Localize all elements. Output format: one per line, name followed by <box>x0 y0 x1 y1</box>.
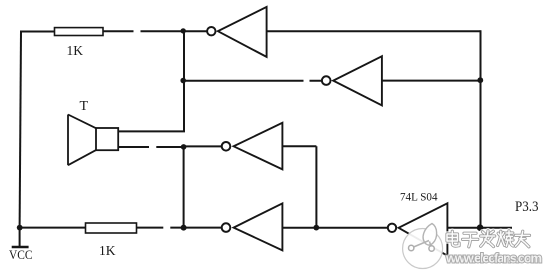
wire: U5 input to P3.3 open end <box>447 227 512 229</box>
node VCC junction dot <box>17 225 23 231</box>
watermark logo circle (elecfans) <box>403 224 443 269</box>
svg-text:T: T <box>80 99 89 114</box>
wire: node A to U1 output bubble <box>183 30 207 32</box>
svg-text:P3.3: P3.3 <box>515 199 539 215</box>
node B junction dot (U2 output on bus) <box>180 78 186 84</box>
node: junction dot right rail on P3.3 net <box>477 224 484 231</box>
svg-text:74L S04: 74L S04 <box>400 190 438 204</box>
wire: left vertical rail from top rail down to VCC node <box>20 32 21 228</box>
wire: lower bus vertical from node C to node D <box>183 147 185 228</box>
svg-text:1K: 1K <box>99 243 116 258</box>
wire: R2 to node D (with small print gap) <box>137 227 184 229</box>
wire: U1 input to top-right corner <box>267 30 481 32</box>
op-amp U5 inverter triangle (74LS04 gate 5, pointing left) <box>399 203 448 255</box>
op-amp U5 inverter output bubble <box>388 224 396 232</box>
wire: bottom rail from VCC node to resistor R2 <box>20 227 86 229</box>
op-amp U4 inverter output bubble <box>222 223 231 232</box>
op-amp U1 inverter output bubble <box>207 27 215 35</box>
wire: U3 input right then down to bottom net <box>282 146 316 227</box>
wire: speaker top terminal to bus corner <box>118 130 185 132</box>
wire: top rail left segment to resistor R1 <box>20 31 55 33</box>
wire: speaker bottom terminal to node C (with small print gap) <box>118 146 183 148</box>
wire: node D to U4 output bubble <box>184 227 222 229</box>
op-amp U4 inverter triangle (74LS04 gate 4, pointing left) <box>234 203 283 250</box>
power symbol VCC (stub and bar) <box>19 228 21 246</box>
op-amp U1 inverter triangle (74LS04 gate 1, pointing left) <box>218 7 267 57</box>
node A junction dot (top of bus) <box>181 28 186 33</box>
node C junction dot (U3 output / speaker) <box>181 144 187 150</box>
wire: node C to U3 output bubble <box>184 145 222 147</box>
node: junction dot U3 input on bottom net <box>313 225 319 231</box>
op-amp U3 inverter triangle (74LS04 gate 3, pointing left) <box>234 123 283 170</box>
wire: top rail from R1 to node A (with small print gap) <box>103 30 183 32</box>
svg-text:www.elecfans.com: www.elecfans.com <box>445 251 542 266</box>
resistor R1 body <box>55 28 104 36</box>
node: junction dot U2 input on right rail <box>477 77 483 83</box>
resistor R2 body <box>86 223 137 233</box>
wire: node B to U2 output bubble (with small print gap) <box>183 80 322 82</box>
svg-text:VCC: VCC <box>9 247 33 262</box>
wire: right vertical rail down to P3.3 net <box>480 30 482 228</box>
op-amp U2 inverter output bubble <box>322 76 331 85</box>
speaker T (transducer) <box>68 115 118 166</box>
wire: bus node A vertical segment down to speaker top terminal corner <box>183 31 185 131</box>
wire: U2 input to right vertical rail <box>382 80 481 82</box>
node D junction dot (bottom of bus) <box>181 225 187 231</box>
op-amp U2 inverter triangle (74LS04 gate 2, pointing left) <box>333 56 382 105</box>
wire: U4 input across to U5 output bubble <box>282 227 387 229</box>
watermark text 电子发烧友 (approximated strokes) <box>447 231 530 247</box>
svg-text:1K: 1K <box>67 43 84 58</box>
op-amp U3 inverter output bubble <box>222 142 231 151</box>
